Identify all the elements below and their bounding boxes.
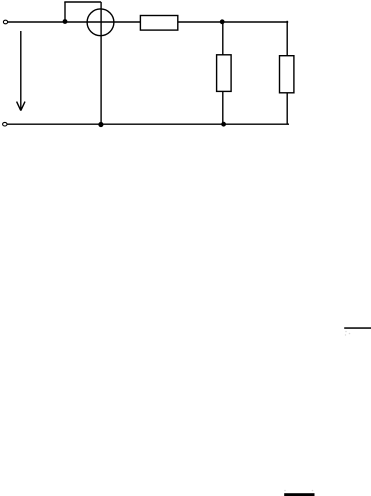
node C junction dot	[98, 122, 103, 127]
wire top rail left segment	[7, 21, 140, 23]
current source I1 (IEC circle symbol)	[87, 9, 114, 36]
wire middle branch vertical	[222, 22, 224, 124]
resistor R3 (right vertical)	[280, 56, 294, 93]
arrow (input voltage direction)	[17, 31, 25, 111]
fraction bar (bottom edge, cropped equation)	[284, 493, 314, 496]
terminal T2 (bottom-left input)	[3, 122, 7, 126]
fraction bar (right edge, cropped equation)	[344, 327, 371, 329]
node D junction dot	[221, 122, 226, 127]
resistor R1 (horizontal)	[140, 16, 177, 31]
faint specks near bottom fraction bar	[284, 490, 286, 492]
wire current-source branch vertical	[100, 2, 102, 124]
resistor R2 (middle vertical)	[217, 55, 232, 92]
terminal T1 (top-left input)	[3, 20, 7, 24]
node B junction dot	[220, 19, 225, 24]
faint speck cluster near right fraction bar	[345, 331, 347, 333]
wire loop horizontal top	[64, 1, 101, 3]
wire bottom rail	[7, 123, 289, 125]
wire right branch vertical	[286, 21, 288, 124]
wire top rail right segment	[178, 21, 288, 23]
node A junction dot	[63, 19, 68, 24]
wire loop vertical up from node A	[64, 2, 66, 23]
